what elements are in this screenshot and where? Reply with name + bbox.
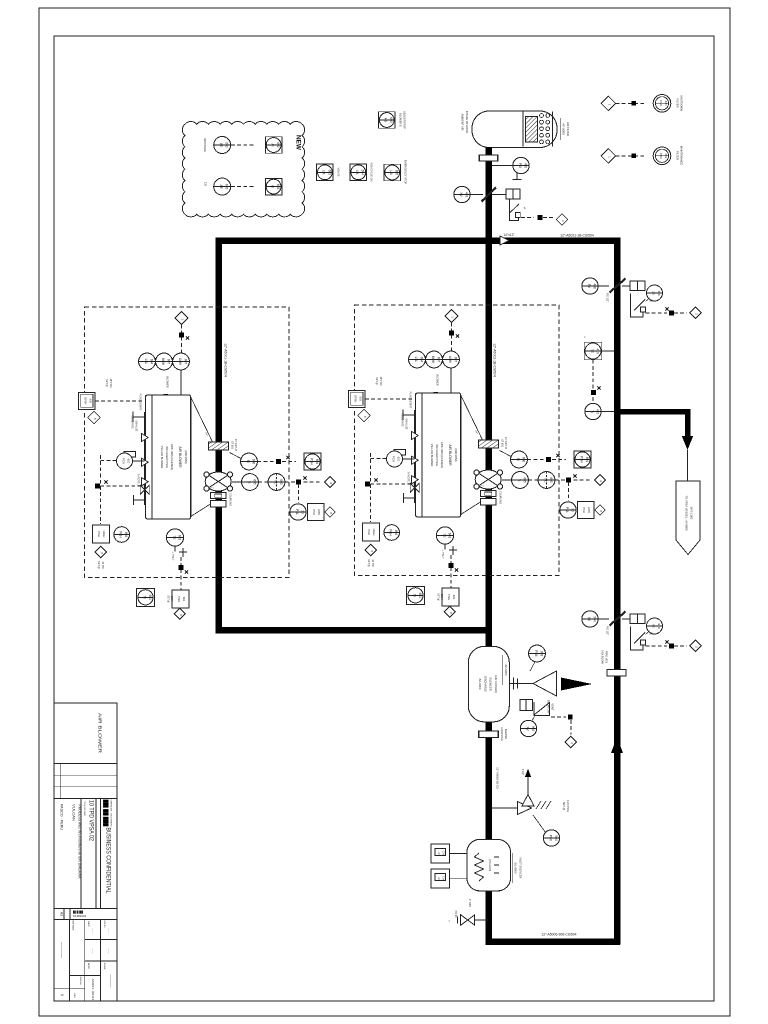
svg-text:604: 604	[361, 170, 365, 176]
coupling flange below aftercooler	[479, 731, 499, 738]
svg-text:PROCESS AND INSTRUMENTATION DI: PROCESS AND INSTRUMENTATION DIAGRAM	[78, 805, 82, 879]
svg-text:2 1/2": 2 1/2"	[521, 769, 524, 775]
interlock diamond row 2	[601, 149, 616, 164]
title block section dividers	[54, 763, 117, 765]
svg-text:ADJUST/STOP: ADJUST/STOP	[403, 111, 407, 129]
svg-text:REV: REV	[73, 993, 75, 998]
svg-text:12"-A5003-1B-CS: 12"-A5003-1B-CS	[496, 767, 500, 789]
alarm bubble PAL-401	[653, 147, 671, 165]
svg-text:A3: A3	[60, 912, 64, 916]
svg-text:ZS: ZS	[652, 291, 656, 295]
svg-text:301114: 301114	[91, 991, 95, 1001]
solenoid assembly	[510, 199, 519, 221]
svg-text:410: 410	[595, 409, 599, 415]
VSA blower skid unit 1	[79, 307, 336, 619]
svg-text:BLOWER E: BLOWER E	[399, 113, 403, 127]
blowoff flow arrow	[561, 678, 592, 691]
main pipe: left loop vertical	[215, 237, 222, 633]
main pipe: top header horizontal	[215, 237, 620, 244]
signal wire	[592, 360, 594, 403]
svg-text:12"-A5002-1B-CS/504: 12"-A5002-1B-CS/504	[493, 343, 497, 377]
svg-text:SET @: SET @	[562, 802, 566, 811]
svg-text:AE: AE	[219, 143, 223, 147]
svg-text:VENT: VENT	[551, 703, 555, 711]
svg-text:DATE: DATE	[87, 921, 90, 927]
svg-text:INLET SILENCER: INLET SILENCER	[519, 858, 523, 879]
title block outline	[54, 703, 117, 1001]
blowoff valve XV-902 actuator	[520, 700, 526, 711]
silencer spring element	[475, 853, 484, 881]
svg-text:- - -: - - -	[107, 929, 111, 934]
svg-text:INTAKE W/ HOOD: INTAKE W/ HOOD	[465, 111, 469, 133]
filter element hatched	[526, 117, 538, 143]
signal wire	[231, 186, 256, 188]
svg-text:CHK BY: CHK BY	[103, 920, 105, 928]
svg-text:AE: AE	[219, 184, 223, 188]
svg-text:11.5 PSIG: 11.5 PSIG	[566, 800, 570, 812]
svg-text:UF: UF	[437, 852, 440, 856]
shared display AI-603	[265, 178, 282, 195]
svg-text:12"-A5001-1B-CS/504: 12"-A5001-1B-CS/504	[224, 343, 228, 377]
shared display AI-602	[265, 137, 282, 154]
inlet silencer SIL-9000	[467, 839, 511, 891]
drain line	[475, 919, 488, 921]
svg-text:TO VPSA VESSEL - AV-9000: TO VPSA VESSEL - AV-9000	[685, 496, 689, 531]
svg-text:603: 603	[327, 170, 331, 176]
svg-text:919: 919	[657, 623, 661, 628]
svg-text:PG 1/2": PG 1/2"	[606, 293, 609, 302]
svg-text:————: ————	[109, 975, 113, 989]
svg-text:AIR FILTER: AIR FILTER	[566, 122, 570, 136]
svg-text:902: 902	[531, 726, 535, 732]
svg-text:VULCAN: VULCAN	[72, 804, 76, 821]
svg-text:DWN MADE: DWN MADE	[72, 919, 75, 931]
PSV tag circle	[543, 830, 559, 846]
svg-text:CHK: CHK	[442, 876, 445, 881]
svg-text:602: 602	[225, 142, 229, 148]
svg-text:XE: XE	[652, 624, 656, 628]
instrument box 1	[431, 844, 450, 863]
valve XV-401 actuator	[506, 189, 513, 199]
svg-text:600: 600	[389, 117, 393, 123]
svg-text:401: 401	[464, 192, 468, 198]
svg-text:- - -: - - -	[107, 949, 111, 954]
svg-text:61381001: 61381001	[73, 914, 87, 918]
svg-text:HS: HS	[384, 118, 388, 122]
svg-text:VSA CYCLE ON: VSA CYCLE ON	[370, 162, 374, 181]
vent silencer horn	[533, 671, 557, 696]
svg-text:- - -: - - -	[91, 929, 95, 934]
revision strip rows (upper)	[59, 764, 61, 799]
svg-text:10 TPD VPSA 02: 10 TPD VPSA 02	[88, 800, 95, 841]
flow arrow up on right vertical	[611, 737, 623, 753]
vent line	[509, 683, 533, 685]
reducer 14x12	[500, 236, 509, 245]
svg-text:TI: TI	[590, 410, 594, 413]
svg-text:PASCO - PERU: PASCO - PERU	[60, 804, 64, 830]
vent riser	[527, 777, 529, 795]
analyzer AE moisture	[214, 137, 231, 154]
svg-text:S: S	[524, 206, 526, 210]
svg-text:VSA BLOW: VSA BLOW	[601, 650, 605, 664]
svg-text:602: 602	[276, 142, 280, 148]
svg-text:AC-9000: AC-9000	[478, 678, 482, 689]
svg-text:VSA 03: VSA 03	[337, 168, 341, 177]
off-page connector flag TO VPSA VESSELS	[676, 481, 700, 555]
svg-text:408: 408	[593, 283, 597, 289]
automated valve XV-919 on right vertical	[582, 611, 701, 652]
svg-text:CHK: CHK	[442, 851, 445, 856]
flow arrow down to flag	[682, 436, 693, 450]
svg-text:903: 903	[539, 651, 543, 657]
shared display UA-603	[317, 164, 334, 181]
svg-text:PSE: PSE	[534, 650, 538, 656]
blowoff valve XV-902 body	[534, 702, 550, 716]
interlock diamond	[565, 736, 577, 748]
svg-text:605: 605	[395, 170, 399, 176]
svg-text:DWN No.: DWN No.	[79, 977, 81, 986]
temperature element TE-410	[584, 342, 602, 360]
svg-text:AC-9000: AC-9000	[504, 664, 508, 675]
revision cloud	[182, 122, 304, 217]
svg-text:PO 50: PO 50	[454, 911, 457, 918]
svg-text:MAINTENANCE: MAINTENANCE	[680, 146, 684, 166]
svg-text:AF-9000: AF-9000	[562, 123, 566, 135]
svg-text:PIPE VES: PIPE VES	[605, 651, 609, 663]
VSA blower skid unit 2	[349, 305, 606, 617]
svg-text:PDI: PDI	[518, 163, 522, 168]
svg-text:AMBIENT AIR: AMBIENT AIR	[461, 114, 465, 131]
air filter vessel AF-9000	[472, 111, 557, 148]
shared display UA-605	[384, 164, 401, 181]
rupture disc PSE-903	[529, 645, 546, 662]
signal wire	[551, 716, 566, 718]
relief valve body	[518, 802, 532, 815]
svg-text:SIL-9000: SIL-9000	[514, 862, 518, 874]
aftercooler vessel AC-9000	[468, 646, 509, 722]
svg-text:PAH: PAH	[659, 100, 663, 106]
svg-text:TE: TE	[590, 349, 594, 353]
svg-text:603: 603	[276, 184, 280, 190]
svg-text:408: 408	[657, 290, 661, 295]
svg-text:SHUTDOWN: SHUTDOWN	[680, 95, 684, 111]
svg-text:FILTER: FILTER	[676, 98, 680, 107]
svg-text:0: 0	[60, 994, 64, 996]
svg-text:SILENCER: SILENCER	[489, 677, 493, 691]
signal wire	[616, 155, 647, 157]
svg-text:2" NPS: 2" NPS	[468, 899, 471, 907]
svg-text:PSV: PSV	[548, 835, 552, 842]
valve tag circle	[520, 720, 536, 736]
vent hatch	[536, 801, 541, 809]
main pipe: center vertical from air filter	[485, 147, 492, 945]
svg-text:603: 603	[225, 184, 229, 190]
svg-text:CHK EXAM: CHK EXAM	[488, 859, 491, 871]
signal wire	[521, 217, 534, 219]
svg-text:—————: —————	[60, 942, 64, 959]
svg-text:14"x12": 14"x12"	[503, 233, 515, 237]
main pipe: branch to VPSA vessels	[617, 409, 688, 415]
main pipe: right vertical	[614, 237, 621, 944]
svg-text:AI: AI	[270, 185, 274, 188]
svg-text:DISCHARGE: DISCHARGE	[484, 676, 488, 692]
svg-text:MOISTURE: MOISTURE	[203, 138, 207, 152]
svg-text:NEW: NEW	[295, 135, 302, 151]
flange below air filter	[479, 155, 498, 161]
svg-text:(AIR COOLED): (AIR COOLED)	[494, 675, 498, 693]
revision table	[68, 920, 70, 1002]
relief valve PSV-904 inlet line	[491, 807, 518, 809]
svg-text:APPD: APPD	[87, 963, 90, 969]
svg-text:FILTER: FILTER	[676, 151, 680, 160]
svg-text:410: 410	[595, 348, 599, 354]
interlock diamond	[556, 214, 568, 226]
svg-text:904: 904	[593, 616, 597, 622]
temperature indicator TI-410	[585, 403, 601, 419]
svg-text:AI: AI	[270, 143, 274, 146]
svg-text:PDA: PDA	[659, 153, 663, 159]
analyzer AE CO	[214, 178, 231, 195]
size / first issue row	[63, 909, 65, 920]
valve XV-401 body	[482, 188, 497, 202]
interlock diamond row 1	[601, 96, 616, 111]
gauge PDI-402	[513, 157, 529, 173]
svg-text:UF: UF	[437, 877, 440, 881]
svg-text:904: 904	[554, 835, 558, 841]
svg-text:ASO/13: ASO/13	[91, 979, 95, 990]
svg-text:- - -: - - -	[91, 949, 95, 954]
signal wire	[616, 102, 647, 104]
valve XV-401 tag	[454, 186, 470, 202]
svg-text:SCALE: SCALE	[103, 963, 106, 970]
svg-text:12"-A5021-1B-CS/504: 12"-A5021-1B-CS/504	[560, 234, 594, 238]
shared display UA-604	[350, 164, 367, 181]
instrument box 2	[431, 869, 450, 888]
svg-text:BUSINESS CONFIDENTIAL: BUSINESS CONFIDENTIAL	[105, 828, 111, 895]
shared display HS blower adjust stop	[379, 112, 396, 129]
main pipe: left loop bottom horizontal	[215, 627, 491, 634]
svg-text:COUPLING: COUPLING	[500, 727, 504, 741]
alarm bubble PAH-401	[653, 95, 671, 113]
svg-text:KEEPER: KEEPER	[504, 729, 508, 740]
svg-text:EMERGENCY STOP: EMERGENCY STOP	[404, 160, 408, 185]
svg-text:SHT-1.002: SHT-1.002	[690, 507, 694, 520]
svg-text:AIR BLOWER: AIR BLOWER	[98, 713, 103, 754]
svg-text:CONTRACTOR – RIO DE JANEIRO: CONTRACTOR – RIO DE JANEIRO	[110, 800, 113, 827]
drain valve bowtie	[468, 915, 475, 925]
svg-text:PG 1/2": PG 1/2"	[606, 626, 609, 635]
svg-text:██▌██ ███: ██▌██ ███	[103, 800, 110, 828]
svg-text:401: 401	[664, 153, 668, 158]
flange on right vertical	[607, 670, 626, 677]
automated valve PV-408 on right header	[582, 278, 701, 319]
svg-text:TITLE OF DWG: TITLE OF DWG	[83, 801, 85, 817]
svg-text:401: 401	[664, 101, 668, 106]
signal wire	[231, 144, 256, 146]
svg-text:402: 402	[523, 163, 527, 169]
intake louvre holes	[540, 114, 544, 118]
svg-text:12"-A5006-306-CS/504: 12"-A5006-306-CS/504	[541, 933, 576, 937]
main pipe: bottom horizontal	[485, 938, 620, 945]
